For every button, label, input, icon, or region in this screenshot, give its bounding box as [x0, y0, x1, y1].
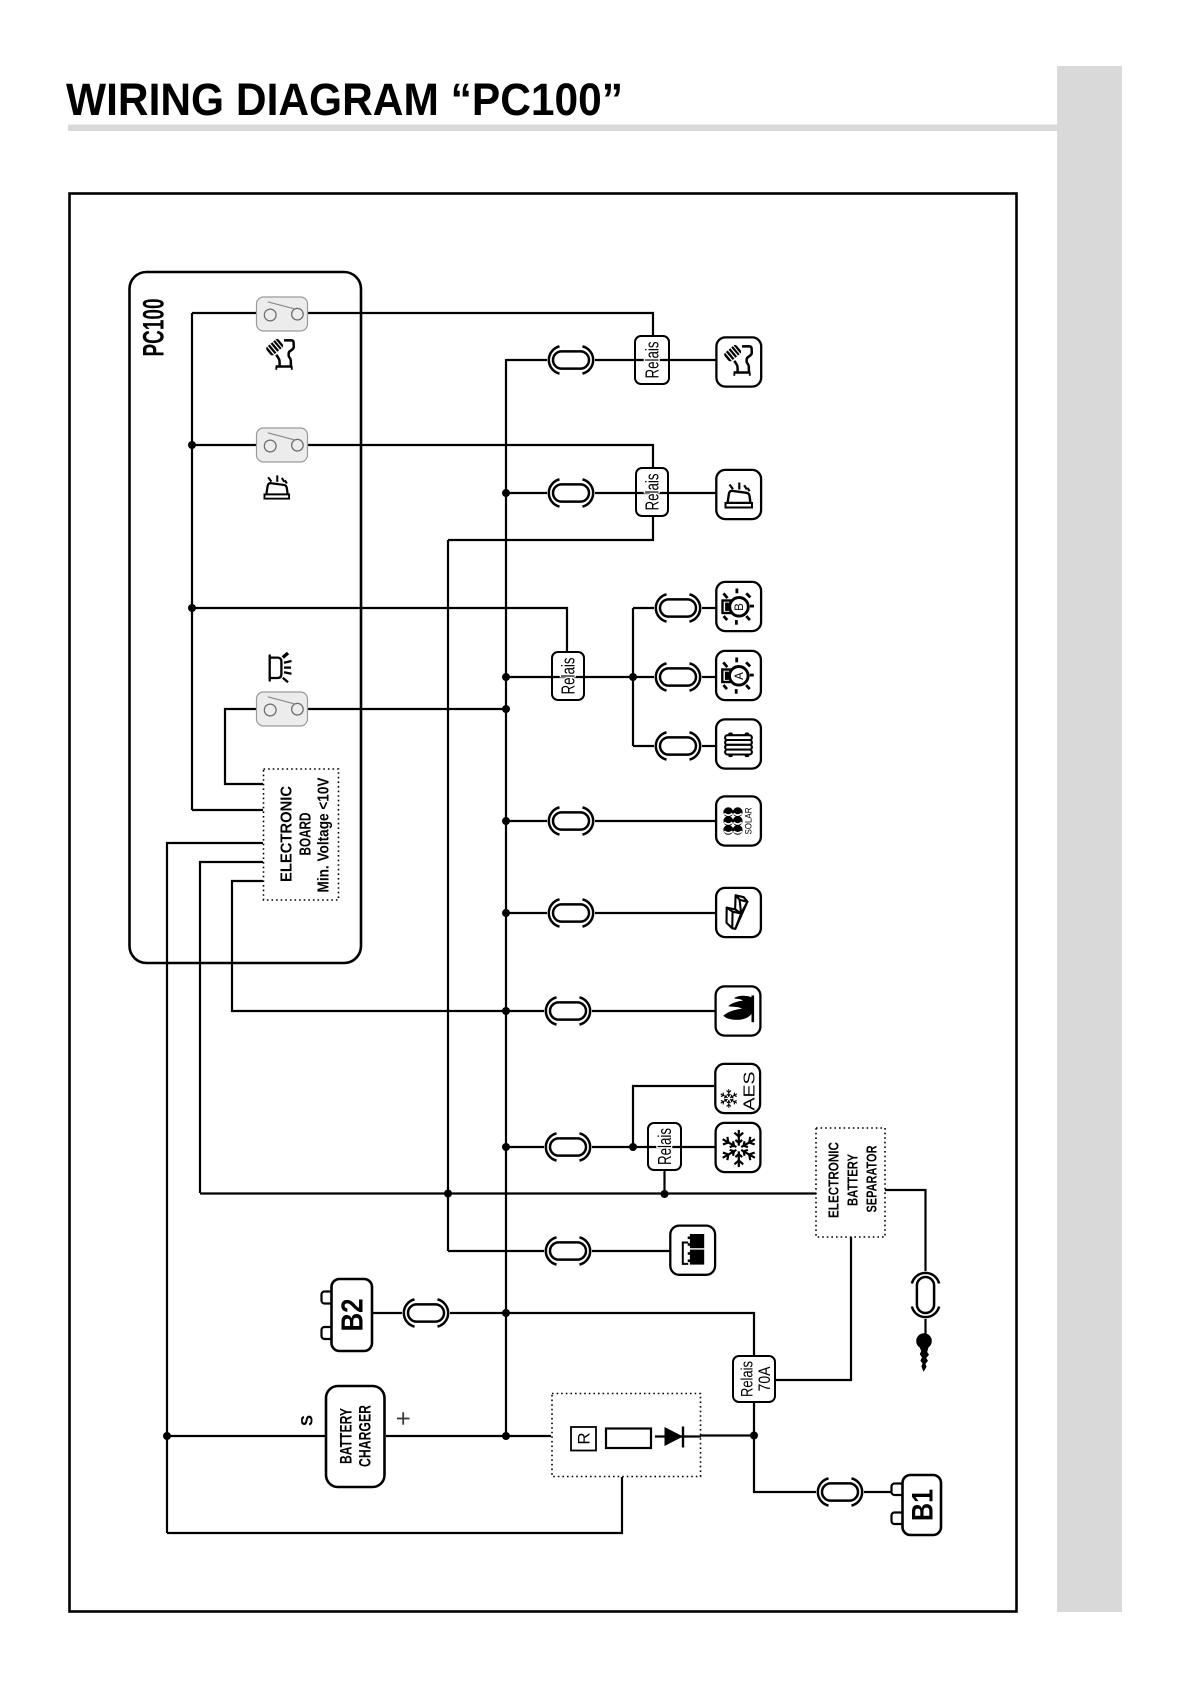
- wire fuse F10 to battery B1: [864, 1491, 892, 1493]
- projector icon next to switch S3: [270, 653, 292, 682]
- wire switch S3 left to electronic board: [225, 709, 263, 784]
- wire diode box bottom return: [167, 1477, 622, 1533]
- svg-text:Relais: Relais: [738, 1361, 757, 1397]
- diode D1: [655, 1435, 701, 1437]
- switch S2 (awning light): [257, 428, 308, 462]
- title underline gray bar: [68, 125, 1057, 132]
- load icon box: entry step: [716, 888, 761, 937]
- node fridge branch: [629, 1143, 637, 1151]
- svg-text:B2: B2: [335, 1299, 370, 1332]
- svg-text:BOARD: BOARD: [298, 813, 315, 856]
- load icon box: water pump: [716, 337, 761, 386]
- svg-text:S: S: [299, 1415, 317, 1426]
- wire fuse F2 to relay RL2: [595, 492, 636, 494]
- svg-text:WIRING DIAGRAM “PC100”: WIRING DIAGRAM “PC100”: [66, 74, 623, 125]
- wire through relay RL2: [636, 492, 668, 494]
- load icon box: AES fridge: [715, 1064, 760, 1113]
- right side gray bar: [1057, 66, 1122, 1612]
- wire fuse F1 to relay RL1: [595, 359, 635, 361]
- switch S3 (lamps): [257, 692, 308, 726]
- fuse FC radiator: [656, 732, 700, 759]
- svg-text:B1: B1: [907, 1489, 940, 1521]
- load icon box: awning light: [716, 470, 761, 519]
- resistor R label square: [571, 1427, 596, 1451]
- svg-text:Relais: Relais: [643, 474, 663, 511]
- wire V2 to fuse F2: [506, 492, 547, 494]
- wire fuse F7 to node x=633: [592, 1146, 633, 1148]
- wire lamp feed from bus V1 to relay RL3: [192, 608, 567, 652]
- wire relay RL5 bottom to B1 line: [754, 1402, 816, 1492]
- fuse F9 battery B2: [404, 1299, 448, 1326]
- wire through relay RL1: [635, 359, 669, 361]
- wire relay RL4 to fridge icon: [681, 1146, 716, 1148]
- fuse FA lamp A: [656, 663, 700, 690]
- wire V2 to fuse F7: [506, 1146, 544, 1148]
- key symbol: [916, 1333, 932, 1372]
- node charger S/V10: [163, 1432, 171, 1440]
- wire separator line y=1194: [200, 1192, 816, 1194]
- fuse F4 solar: [549, 807, 593, 834]
- wire node to relay RL4: [633, 1146, 648, 1148]
- wire fuse F8 to control panel icon: [592, 1250, 670, 1252]
- node lamp branch: [629, 673, 637, 681]
- wire electronic board to bus V10 x=167: [167, 843, 263, 1533]
- svg-text:BATTERY: BATTERY: [846, 1154, 862, 1206]
- electronic board dotted box: [264, 769, 339, 900]
- svg-text:R: R: [575, 1432, 594, 1444]
- wire through relay RL4: [648, 1146, 681, 1148]
- battery charger box: [326, 1386, 385, 1487]
- svg-text:AES: AES: [741, 1072, 758, 1111]
- svg-text:ELECTRONIC: ELECTRONIC: [279, 786, 296, 882]
- wire fuse FC to radiator icon: [702, 745, 716, 747]
- wire electronic board to bus V12 x=232: [232, 881, 544, 1011]
- fuse F6 boiler: [546, 997, 590, 1024]
- fuse F11 key line (vertical): [912, 1273, 939, 1317]
- outer diagram border: [70, 194, 1017, 1612]
- node fridge/V2: [502, 1143, 510, 1151]
- svg-text:ELECTRONIC: ELECTRONIC: [827, 1142, 843, 1218]
- electronic battery separator dotted box: [816, 1128, 885, 1237]
- fuse F10 battery B1: [818, 1478, 862, 1505]
- fuse F1: [549, 346, 593, 373]
- fuse FB lamp B: [656, 594, 700, 621]
- resistor body: [606, 1429, 651, 1449]
- wire fuse F5 to step icon: [595, 912, 716, 914]
- fuse F7 fridge: [546, 1133, 590, 1160]
- load icon box: lamp A: [716, 651, 761, 700]
- wire bus V3 vertical x=448: [447, 540, 449, 1251]
- wire relay RL1 to pump icon: [669, 359, 717, 361]
- relay RL4: [648, 1123, 681, 1170]
- svg-text:70A: 70A: [755, 1366, 774, 1392]
- wire charger S line: [167, 1435, 325, 1437]
- wire AES branch: [633, 1086, 714, 1147]
- load icon box: control panel: [670, 1226, 715, 1275]
- awning light icon next to switch S2: [264, 475, 289, 498]
- svg-text:Relais: Relais: [643, 342, 663, 379]
- load icon box: lamp B: [716, 582, 761, 631]
- battery B2: [322, 1279, 373, 1351]
- svg-text:BATTERY: BATTERY: [337, 1408, 356, 1464]
- svg-text:Relais: Relais: [559, 658, 579, 695]
- relay RL5 Relais 70A: [733, 1356, 775, 1402]
- wire switch S1 left to node bus V1: [192, 312, 257, 314]
- wire electronic board to bus V11 x=200: [200, 862, 263, 1193]
- node S3/V2: [502, 705, 510, 713]
- wire switch S1 right to relay RL1: [307, 313, 653, 336]
- wire supply bus V2 vertical x=506: [505, 359, 507, 1436]
- wire bus V1 into electronic board: [192, 809, 263, 811]
- wire separator right to fuse F11: [885, 1190, 926, 1271]
- label +: [397, 1412, 410, 1424]
- wire charger plus line to diode box: [386, 1435, 551, 1437]
- wire relay RL3 to lamp branch node: [584, 676, 633, 678]
- wire fuse FA to lamp A icon: [702, 676, 716, 678]
- node RL3/V2: [502, 673, 510, 681]
- svg-text:Relais: Relais: [655, 1128, 675, 1165]
- relay RL2: [636, 468, 668, 516]
- node separator/V3: [444, 1190, 452, 1198]
- wire V3 to fuse F8 control panel: [448, 1250, 544, 1252]
- node B2/V2: [502, 1309, 510, 1317]
- wire bus V1 vertical x=192: [191, 313, 193, 810]
- node F2/V2: [502, 489, 510, 497]
- PC100 rounded box: [130, 272, 362, 963]
- pump icon next to switch S1: [265, 338, 294, 370]
- node S2/V1: [188, 441, 196, 449]
- wire V2 top to fuse F1: [506, 359, 547, 361]
- load icon box: fridge snowflake: [716, 1123, 761, 1172]
- wire V2 to fuse F4 solar: [506, 820, 547, 822]
- wire branch to fuse FC: [633, 745, 654, 747]
- node diode/V7: [750, 1432, 758, 1440]
- wire V2 to fuse F5 step: [506, 912, 547, 914]
- wire branch to fuse FA: [633, 676, 654, 678]
- wire fuse F11 to key: [924, 1319, 926, 1334]
- node lamp-line/V1: [188, 604, 196, 612]
- battery B1: [892, 1475, 942, 1535]
- node separator/RL4: [661, 1190, 669, 1198]
- wire relay RL5 right to separator bottom: [775, 1237, 851, 1380]
- node solar/V2: [502, 817, 510, 825]
- fuse F8 control panel: [546, 1237, 590, 1264]
- wire fuse F6 to boiler icon: [592, 1010, 715, 1012]
- wire through relay RL3: [552, 676, 584, 678]
- node boiler/V2: [502, 1007, 510, 1015]
- wire fuse FB to lamp B icon: [702, 607, 716, 609]
- svg-text:A: A: [734, 672, 746, 680]
- wire switch S2 right to relay RL2: [307, 445, 653, 468]
- load icon box: solar: [716, 796, 761, 845]
- wire relay RL2 to awning light icon: [668, 492, 717, 494]
- fuse F5 step: [549, 899, 593, 926]
- wire branch to fuse FB: [633, 607, 654, 609]
- load icon box: radiator: [716, 719, 761, 768]
- wire diode box output to node on V7: [701, 1434, 754, 1436]
- svg-text:SOLAR: SOLAR: [744, 807, 755, 834]
- wire relay RL2 bottom to bus V3: [448, 516, 653, 540]
- wire fuse F9 to relay RL5 70A: [450, 1313, 754, 1356]
- wire fuse F4 to solar icon: [595, 820, 716, 822]
- svg-text:B: B: [734, 603, 746, 611]
- switch S1 (pump): [257, 297, 308, 331]
- svg-text:CHARGER: CHARGER: [356, 1405, 375, 1467]
- wire V2 to relay RL3: [506, 676, 552, 678]
- R + diode dotted box: [552, 1394, 701, 1477]
- node step/V2: [502, 909, 510, 917]
- svg-text:Min. Voltage <10V: Min. Voltage <10V: [316, 777, 333, 893]
- wire switch S3 right to node on V2: [307, 708, 506, 710]
- relay RL1: [635, 336, 669, 384]
- wire battery B2 to fuse F9: [372, 1312, 402, 1314]
- wire lamp branch vertical x=633: [632, 608, 634, 746]
- node charger/V2: [502, 1432, 510, 1440]
- wire relay RL4 bottom stub: [663, 1170, 665, 1194]
- load icon box: boiler flame: [716, 986, 761, 1035]
- svg-text:PC100: PC100: [138, 299, 171, 357]
- wire switch S2 left to bus V1: [192, 444, 257, 446]
- fuse F2: [549, 479, 593, 506]
- svg-text:SEPARATOR: SEPARATOR: [865, 1145, 881, 1212]
- relay RL3: [552, 652, 584, 700]
